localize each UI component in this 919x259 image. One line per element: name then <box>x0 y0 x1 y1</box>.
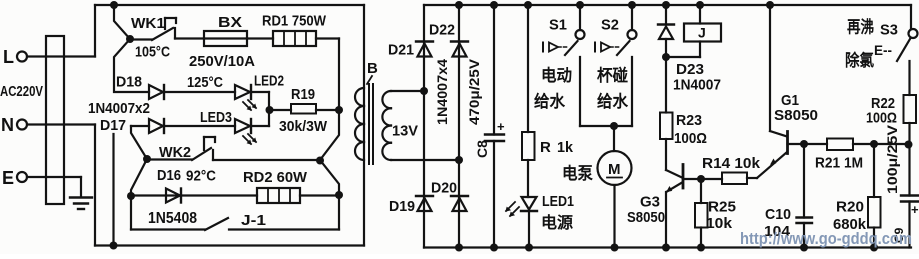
svg-text:S8050: S8050 <box>774 107 818 124</box>
svg-text:LED3: LED3 <box>200 109 232 126</box>
svg-text:S1: S1 <box>549 17 567 34</box>
svg-text:除氯: 除氯 <box>845 50 874 70</box>
svg-text:1N4007x2: 1N4007x2 <box>88 101 150 117</box>
svg-text:给水: 给水 <box>534 91 565 111</box>
svg-text:10k: 10k <box>706 215 733 232</box>
svg-text:D22: D22 <box>429 22 455 39</box>
svg-text:L: L <box>3 47 14 67</box>
svg-text:+: + <box>911 202 919 217</box>
svg-text:再沸: 再沸 <box>847 17 874 37</box>
svg-text:S2: S2 <box>601 17 619 34</box>
svg-text:BX: BX <box>218 14 242 31</box>
svg-text:M: M <box>608 161 621 178</box>
svg-text:C8: C8 <box>474 140 490 158</box>
svg-text:R21 1M: R21 1M <box>815 155 863 172</box>
svg-text:92°C: 92°C <box>186 169 216 185</box>
svg-text:S3: S3 <box>880 22 898 39</box>
svg-text:E: E <box>2 168 14 188</box>
svg-text:J-1: J-1 <box>241 212 266 229</box>
svg-text:WK2: WK2 <box>159 144 191 161</box>
svg-text:30k/3W: 30k/3W <box>279 119 327 135</box>
svg-text:+: + <box>497 119 505 134</box>
svg-text:D18: D18 <box>116 74 142 91</box>
svg-text:G3: G3 <box>640 194 660 211</box>
svg-text:S8050: S8050 <box>627 209 665 226</box>
svg-text:470μ/25V: 470μ/25V <box>466 58 482 125</box>
svg-text:1N4007: 1N4007 <box>673 77 721 94</box>
svg-text:N: N <box>1 115 14 135</box>
svg-text:250V/10A: 250V/10A <box>189 53 255 70</box>
svg-text:RD2 60W: RD2 60W <box>243 169 308 186</box>
svg-text:R20: R20 <box>836 199 864 216</box>
svg-text:电源: 电源 <box>541 213 573 232</box>
svg-text:1N5408: 1N5408 <box>148 210 197 227</box>
svg-text:D23: D23 <box>676 61 704 78</box>
svg-text:1k: 1k <box>557 139 574 156</box>
svg-text:AC220V: AC220V <box>0 84 43 100</box>
svg-text:D16: D16 <box>157 167 181 184</box>
svg-text:1N4007x4: 1N4007x4 <box>434 59 450 125</box>
svg-text:R14 10k: R14 10k <box>702 155 761 172</box>
svg-text:D19: D19 <box>389 198 415 215</box>
svg-text:J: J <box>698 25 706 41</box>
svg-text:D21: D21 <box>388 42 414 59</box>
svg-text:105°C: 105°C <box>135 44 170 61</box>
svg-text:R25: R25 <box>708 199 736 216</box>
svg-text:13V: 13V <box>392 123 418 140</box>
svg-text:RD1 750W: RD1 750W <box>262 13 327 30</box>
svg-text:LED1: LED1 <box>542 193 574 210</box>
svg-text:100Ω: 100Ω <box>866 110 897 127</box>
svg-text:100Ω: 100Ω <box>674 130 707 147</box>
svg-text:R: R <box>540 139 551 156</box>
svg-text:R23: R23 <box>676 112 702 129</box>
svg-text:D17: D17 <box>100 117 126 134</box>
svg-text:100μ/25V: 100μ/25V <box>884 124 900 194</box>
svg-text:D20: D20 <box>431 180 457 197</box>
svg-text:R19: R19 <box>291 86 315 103</box>
svg-text:E--: E-- <box>874 42 892 58</box>
svg-text:B: B <box>367 60 378 77</box>
svg-text:电动: 电动 <box>541 65 572 85</box>
svg-text:WK1: WK1 <box>131 15 165 32</box>
svg-text:电泵: 电泵 <box>562 163 593 183</box>
svg-text:C10: C10 <box>765 206 791 223</box>
svg-text:http://www.go-gddq.com: http://www.go-gddq.com <box>740 230 912 248</box>
svg-text:给水: 给水 <box>597 91 628 111</box>
svg-text:LED2: LED2 <box>254 73 284 90</box>
svg-text:125°C: 125°C <box>187 75 223 91</box>
svg-text:杯碰: 杯碰 <box>597 65 628 85</box>
